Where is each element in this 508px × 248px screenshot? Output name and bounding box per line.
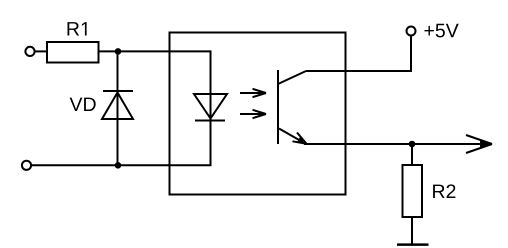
wire terminal to R1 [35, 50, 48, 52]
label R2 [433, 184, 455, 198]
phototransistor emitter arrowhead [293, 133, 307, 144]
label +5V [425, 24, 459, 38]
wire +5V vertical [410, 36, 412, 72]
node junction top (R1/VD) [115, 48, 122, 55]
node junction bottom (VD/rail) [115, 162, 122, 169]
wire R1 to LED anode line (top rail) [98, 50, 212, 52]
label R1 [68, 22, 87, 35]
ground [397, 243, 429, 246]
input terminal bottom-left [22, 161, 31, 170]
wire bottom rail to LED cathode line [31, 164, 212, 166]
light arrow 1 [240, 89, 266, 97]
wire R2 top [411, 144, 413, 165]
phototransistor base bar [277, 70, 279, 144]
phototransistor collector lead [278, 71, 306, 84]
wire collector to +5V [306, 70, 412, 72]
LED diode inside optocoupler [194, 94, 227, 121]
node junction output/R2 [409, 141, 416, 148]
input terminal top-left [25, 47, 34, 56]
diode VD [102, 91, 133, 119]
wire VD vertical [117, 51, 119, 165]
phototransistor emitter lead [279, 129, 304, 143]
light arrow 2 [240, 110, 266, 118]
wire LED vertical (anode to cathode) [210, 51, 212, 165]
wire R2 bottom to ground [411, 217, 413, 245]
optocoupler body box [170, 33, 346, 195]
output arrow [466, 135, 492, 153]
wire emitter to output [304, 143, 487, 145]
resistor R1 [47, 42, 99, 63]
label VD [70, 98, 96, 111]
resistor R2 [403, 165, 423, 217]
power terminal +5V [407, 27, 416, 36]
